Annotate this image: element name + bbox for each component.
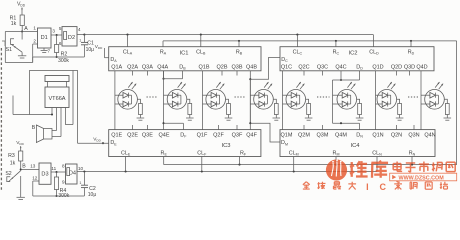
resistor R VD3: [227, 104, 231, 115]
ground VD1: [137, 117, 145, 119]
LED VD4 feed wire: [249, 79, 251, 123]
LED VD6 bottom diode: [342, 101, 348, 107]
inverter D3: [39, 163, 51, 184]
node R4 bottom: [55, 195, 57, 197]
svg-text:1: 1: [79, 181, 81, 185]
svg-text:Q1N: Q1N: [372, 133, 383, 139]
node R_D: [410, 40, 412, 42]
wire D4 output: [77, 171, 84, 173]
svg-text:11: 11: [51, 166, 56, 171]
LED VD6 top diode: [342, 92, 348, 98]
ground S1: [18, 55, 26, 57]
LED VD2 output wire: [187, 99, 190, 103]
module enclosure wire: [30, 71, 78, 144]
svg-text:12: 12: [32, 176, 38, 181]
wire feedback bottom left: [5, 62, 32, 64]
LED VD2 cathode join: [178, 94, 181, 96]
LED VD1 circle: [118, 90, 138, 110]
sound module VT66A: [45, 76, 69, 82]
LED VD4 bottom diode: [259, 101, 265, 107]
continuation dots group 3: [317, 96, 330, 98]
module pins: [51, 108, 53, 115]
ground D1 pin7: [43, 48, 45, 50]
svg-text:Q2M: Q2M: [298, 133, 310, 139]
node R_F: [238, 164, 240, 166]
wire Q4E to D_F loop: [162, 122, 164, 124]
svg-text:Q3E: Q3E: [142, 133, 153, 139]
stub Q3M: [322, 125, 324, 130]
stub Q2A: [132, 71, 134, 76]
LED VD1 light arrows: [128, 82, 132, 88]
reset right edge wire: [456, 41, 458, 165]
LED VD4 output wire: [273, 99, 276, 103]
LED VD7 light arrows: [387, 82, 391, 88]
resistor R VD4: [274, 104, 278, 115]
ground VD6: [356, 117, 364, 119]
LED VD1 anode stubs: [115, 94, 123, 96]
reset bus bottom: [164, 164, 457, 166]
node R_C: [335, 40, 337, 42]
LED VD6 feed wire: [332, 80, 334, 123]
ground S2: [17, 196, 25, 198]
wire Q4B through vertical: [249, 79, 251, 129]
LED VD4 circle: [254, 90, 274, 110]
svg-text:IC1: IC1: [179, 50, 188, 56]
wire left branch down: [4, 32, 6, 63]
wire Q4A to D_B loop: [163, 71, 165, 79]
LED VD6 cathode join: [348, 94, 351, 96]
LED VD3 light arrows: [216, 82, 220, 88]
LED VD4 anode stubs: [250, 94, 259, 96]
LED VD7 anode stubs: [376, 94, 383, 96]
node R2 bottom: [56, 56, 58, 58]
LED VD1 top diode: [123, 92, 129, 98]
svg-text:Q4E: Q4E: [158, 133, 169, 139]
svg-text:3: 3: [52, 29, 55, 34]
svg-text:Q2D: Q2D: [391, 65, 402, 71]
stub Q3E: [146, 125, 148, 130]
stub Q3F: [236, 125, 238, 130]
stub Q2E: [132, 125, 134, 130]
reset bus top: [163, 40, 457, 42]
node R_N: [411, 164, 413, 166]
ground VD3: [225, 117, 233, 119]
wire D3 output pin11: [51, 171, 66, 173]
wire Q4C to D_D loop: [340, 71, 342, 80]
svg-text:9: 9: [62, 180, 65, 185]
LED VD5 light arrows: [296, 82, 300, 88]
svg-text:IC3: IC3: [221, 143, 230, 149]
wire CL_N rise: [376, 157, 378, 172]
LED VD6 anode stubs: [333, 94, 343, 96]
LED VD8 anode stubs: [421, 94, 430, 96]
svg-text:Q4N: Q4N: [424, 133, 435, 139]
stub Q2F: [218, 125, 220, 130]
wire S2 to ground: [20, 176, 22, 197]
svg-text:VT66A: VT66A: [48, 96, 65, 102]
svg-text:10: 10: [78, 166, 84, 171]
svg-text:Q2F: Q2F: [213, 133, 224, 139]
LED VD7 bottom diode: [382, 101, 388, 107]
svg-text:1: 1: [33, 25, 36, 30]
watermark url box: [390, 173, 457, 181]
shift register IC1: [109, 47, 261, 71]
wire R1 to node A: [21, 26, 23, 32]
svg-text:Q2E: Q2E: [127, 133, 138, 139]
watermark title electronics market: [393, 162, 402, 172]
svg-text:1k: 1k: [10, 161, 16, 167]
ground VD5: [305, 117, 313, 119]
LED VD1 feed wire: [114, 71, 116, 130]
switch S2: [7, 177, 10, 182]
svg-text:7: 7: [48, 49, 51, 54]
LED VD6 circle: [337, 90, 357, 110]
stub Q3C: [322, 71, 324, 76]
node clock top: [83, 34, 85, 36]
LED VD2 feed wire: [163, 71, 165, 130]
LED VD5 feed wire: [282, 71, 284, 130]
resistor R4: [56, 172, 58, 177]
continuation dots group 4: [408, 96, 418, 98]
svg-text:1: 1: [79, 38, 81, 42]
node CL_B: [200, 34, 202, 36]
svg-text:Q1B: Q1B: [198, 65, 209, 71]
shift register IC2: [280, 47, 434, 71]
svg-text:Q4C: Q4C: [335, 65, 346, 71]
watermark slogan: [303, 182, 310, 189]
node CL_F: [201, 170, 203, 172]
svg-text:I: I: [366, 182, 369, 192]
LED VD2 circle: [167, 90, 187, 110]
svg-text:C1: C1: [87, 41, 94, 47]
watermark title WeiKu: [350, 161, 368, 177]
svg-text:Q3F: Q3F: [232, 133, 243, 139]
LED VD3 output wire: [226, 99, 229, 103]
LED VD1 bottom diode: [123, 101, 129, 107]
wire Q4M to D_N loop: [333, 122, 360, 124]
ground VD2: [186, 117, 194, 119]
node CL_E: [125, 170, 127, 172]
stub Q2N: [396, 125, 398, 130]
svg-text:Q1F: Q1F: [197, 133, 208, 139]
node R4 top: [55, 171, 57, 173]
resistor R VD2: [188, 104, 192, 115]
wire switch to ground: [21, 32, 23, 40]
trigger wire: [12, 96, 14, 115]
shift register IC3: [109, 130, 261, 157]
continuation dots group 1: [147, 96, 158, 98]
wire feedback bottom RC: [33, 195, 85, 197]
resistor R1: [20, 15, 24, 26]
LED VD2 top diode: [172, 92, 178, 98]
resistor R3: [19, 151, 23, 161]
resistor R2: [56, 35, 58, 45]
scan edge artifact strip: [0, 48, 2, 192]
wire D1 out pin3: [51, 34, 62, 36]
LED VD7 cathode join: [388, 94, 391, 96]
svg-text:WWW.DZSC.COM: WWW.DZSC.COM: [399, 175, 445, 181]
wire node B to D3 pin13: [21, 169, 39, 171]
ground VD4: [273, 117, 281, 119]
node A: [21, 30, 23, 32]
svg-text:Q3M: Q3M: [317, 133, 329, 139]
stub Q3N: [413, 125, 415, 130]
svg-text:Q1D: Q1D: [372, 65, 383, 71]
ground VD7: [396, 117, 404, 119]
LED VD2 bottom diode: [172, 101, 178, 107]
wire Q4F to D_M cascade: [249, 122, 251, 124]
svg-text:5: 5: [59, 26, 62, 31]
LED VD2 light arrows: [178, 82, 182, 88]
shift register IC4: [280, 130, 435, 157]
stub Q2M: [303, 125, 305, 130]
LED VD4 cathode join: [264, 94, 267, 96]
svg-text:10μ: 10μ: [86, 47, 95, 53]
svg-text:6: 6: [59, 41, 62, 46]
LED VD5 bottom diode: [291, 101, 297, 107]
stub Q2B: [221, 71, 223, 76]
node R_B: [238, 40, 240, 42]
svg-text:IC4: IC4: [350, 143, 360, 149]
LED VD3 feed wire: [202, 71, 204, 130]
node CL_C: [296, 34, 298, 36]
LED VD8 bottom diode: [430, 101, 436, 107]
wire feedback RC: [33, 56, 85, 58]
node CL_M: [293, 170, 295, 172]
LED VD1 output wire: [137, 99, 140, 103]
resistor R VD5: [307, 104, 311, 115]
svg-text:Q3D: Q3D: [404, 65, 415, 71]
svg-text:R3: R3: [8, 153, 15, 159]
LED VD4 top diode: [259, 92, 265, 98]
LED VD7 feed wire: [375, 71, 377, 130]
svg-text:D3: D3: [41, 172, 48, 178]
svg-text:A: A: [24, 26, 28, 32]
LED VD8 light arrows: [435, 82, 439, 88]
node R2 top: [56, 34, 58, 36]
LED VD3 cathode join: [217, 94, 220, 96]
LED VD5 top diode: [291, 92, 297, 98]
svg-text:2: 2: [33, 38, 36, 43]
LED VD8 top diode: [430, 92, 436, 98]
LED VD3 anode stubs: [203, 94, 212, 96]
svg-text:Q1C: Q1C: [281, 65, 292, 71]
LED VD6 light arrows: [347, 82, 351, 88]
LED VD7 top diode: [382, 92, 388, 98]
stub Q3D: [409, 71, 411, 76]
ground VD8: [444, 117, 452, 119]
svg-text:Q1M: Q1M: [281, 133, 293, 139]
wire to D1 pin2: [32, 44, 34, 63]
LED VD8 feed wire: [420, 71, 422, 130]
svg-text:Q1E: Q1E: [111, 133, 122, 139]
svg-text:Q2A: Q2A: [127, 65, 138, 71]
svg-text:D2: D2: [68, 35, 75, 41]
LED VD5 anode stubs: [283, 94, 292, 96]
resistor R VD6: [358, 104, 362, 115]
wire D2 output: [77, 34, 84, 36]
LED VD2 anode stubs: [164, 94, 173, 96]
wire CL_D drop: [372, 35, 374, 47]
svg-text:Q1A: Q1A: [111, 65, 122, 71]
node CL_A: [126, 34, 128, 36]
svg-text:S2: S2: [5, 171, 11, 177]
resistor R VD7: [398, 104, 402, 115]
svg-text:1k: 1k: [11, 21, 17, 27]
node R_M: [335, 164, 337, 166]
LED VD6 output wire: [357, 99, 360, 103]
svg-text:S1: S1: [6, 47, 12, 53]
svg-text:C: C: [379, 182, 386, 192]
svg-text:Q2C: Q2C: [298, 65, 309, 71]
svg-text:R2: R2: [61, 51, 68, 57]
LED VD5 cathode join: [297, 94, 300, 96]
wire R3 to node B: [20, 161, 22, 170]
svg-text:8: 8: [62, 163, 65, 168]
svg-text:D1: D1: [41, 35, 48, 41]
LED VD1 cathode join: [129, 94, 132, 96]
svg-text:10μ: 10μ: [88, 192, 97, 198]
capacitor C2: [83, 172, 85, 186]
LED VD8 cathode join: [435, 94, 438, 96]
LED VD5 circle: [286, 90, 306, 110]
resistor R VD1: [139, 104, 143, 115]
svg-text:Q3A: Q3A: [142, 65, 153, 71]
LED VD5 output wire: [306, 99, 309, 103]
svg-text:Q4A: Q4A: [157, 65, 168, 71]
watermark logo circle: [326, 159, 347, 180]
speaker B: [44, 129, 52, 140]
svg-text:Q4D: Q4D: [416, 65, 427, 71]
inverter D1: [38, 28, 52, 48]
switch S1: [11, 39, 15, 45]
capacitor C1: [83, 35, 85, 43]
node clock bottom: [83, 170, 85, 172]
LED VD3 top diode: [211, 92, 217, 98]
svg-text:IC2: IC2: [348, 50, 357, 56]
clock bus bottom: [84, 171, 377, 173]
svg-text:Q3B: Q3B: [231, 65, 242, 71]
wire Q4B to D_C cascade: [249, 71, 251, 79]
wire D3 pin12: [33, 180, 39, 182]
svg-text:Q4B: Q4B: [246, 65, 257, 71]
svg-text:Q2B: Q2B: [216, 65, 227, 71]
LED VD3 bottom diode: [211, 101, 217, 107]
svg-text:Q4F: Q4F: [246, 133, 257, 139]
svg-text:Q3N: Q3N: [408, 133, 419, 139]
svg-text:13: 13: [30, 164, 36, 169]
continuation dots group 2: [235, 96, 246, 98]
LED VD4 light arrows: [264, 82, 268, 88]
svg-text:Q3C: Q3C: [317, 65, 328, 71]
LED VD8 circle: [425, 90, 445, 110]
wire node A to D1 pin1: [5, 31, 37, 33]
svg-text:B: B: [32, 125, 36, 131]
LED VD3 circle: [206, 90, 226, 110]
speaker wires: [52, 130, 57, 132]
svg-text:Q2N: Q2N: [391, 133, 402, 139]
stub Q3A: [146, 71, 148, 76]
LED VD8 output wire: [444, 99, 447, 103]
svg-text:300k: 300k: [58, 58, 69, 64]
svg-text:Q4M: Q4M: [335, 133, 347, 139]
svg-text:B: B: [22, 164, 26, 170]
wire R4 bottom: [56, 190, 58, 197]
inverter D2: [62, 27, 77, 46]
stub Q2C: [303, 71, 305, 76]
stub Q3B: [236, 71, 238, 76]
wire R2 bottom: [56, 53, 58, 58]
inverter D4: [66, 164, 78, 184]
clock bus top: [84, 34, 373, 36]
node B: [20, 168, 22, 170]
LED VD7 output wire: [397, 99, 400, 103]
resistor R VD8: [445, 104, 449, 115]
stub Q2D: [396, 71, 398, 76]
LED VD7 circle: [377, 90, 397, 110]
svg-text:4: 4: [78, 27, 81, 32]
